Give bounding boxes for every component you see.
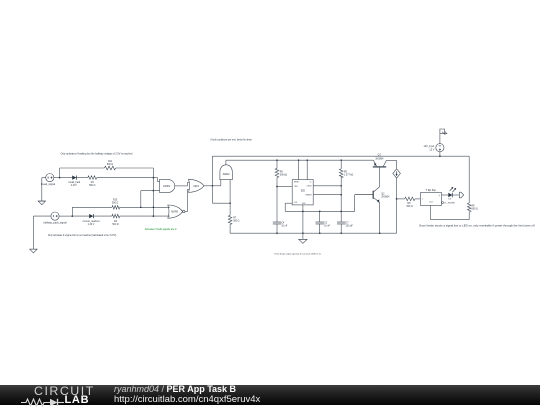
svg-text:CLR: CLR (429, 202, 433, 204)
wire: LED to output port (452, 194, 459, 196)
current source I1 (dependent, diamond) (393, 169, 401, 178)
svg-text:R9: R9 (472, 206, 476, 208)
note: activates if both signals are 0 (green) (145, 228, 177, 231)
wire: up to R11 branch (60, 168, 105, 178)
wire: 12V to rail (439, 152, 441, 156)
ground bus wire (230, 232, 397, 234)
wire: R7 to ground bus (229, 225, 231, 234)
node junction out-gnd cross (302, 211, 304, 213)
wire: OR1 output (204, 185, 212, 187)
svg-text:1.577 kΩ: 1.577 kΩ (344, 175, 354, 177)
wire: NOR1 output to OR1 input B (185, 189, 189, 211)
note: engine limit annotation (48, 234, 117, 237)
voltage source V3 12V_input (424, 144, 444, 152)
resistor R11 (104, 161, 115, 170)
note: timer delay annotation (274, 252, 321, 255)
svg-text:R3: R3 (91, 182, 95, 184)
resistor R6 (275, 168, 287, 177)
node junction at halfway source (71, 215, 73, 217)
resistor R9 (467, 203, 478, 212)
svg-text:OR1: OR1 (193, 184, 199, 188)
svg-text:500 Ω: 500 Ω (407, 206, 413, 208)
wire: Q output to LED (442, 194, 449, 196)
node junction at break source (59, 177, 61, 179)
ground under 555 (299, 233, 307, 243)
capacitor C4 (273, 222, 288, 227)
wire: diamond down to bus (396, 178, 398, 233)
ground under break_signal (38, 201, 45, 205)
ic U2 T flip flop box (420, 189, 441, 205)
wire: OR1 node down and right (212, 186, 230, 203)
svg-text:500 Ω: 500 Ω (107, 164, 113, 166)
wire: into AND1 input A (153, 178, 159, 182)
svg-text:2N3904: 2N3904 (375, 158, 384, 160)
wire: diode to R4 (93, 215, 112, 217)
wire: node to R8 (397, 198, 405, 200)
resistor R10 (112, 200, 120, 210)
wire: 555 THRESH pin (313, 194, 341, 196)
wire: AND2 output up (226, 160, 374, 165)
wire: R10 to NOR1 input A (120, 206, 170, 208)
wire: 555 OUT loop (285, 195, 373, 212)
wire: 555 TRIG pin to R6 node (277, 186, 292, 188)
svg-text:C3: C3 (324, 222, 328, 224)
node junction diamond-R8 (396, 198, 398, 200)
wire: C4 to bus (276, 224, 278, 233)
bus junction b (302, 232, 304, 234)
flip flop Qbar bubble (442, 202, 455, 205)
bus junction c (319, 232, 321, 234)
node junction out-R5 cross (340, 211, 342, 213)
resistor R8 (405, 197, 415, 208)
svg-text:C4: C4 (281, 222, 285, 224)
ground under halfway_pack_signal (30, 249, 37, 253)
voltage source V1 break_signal (41, 174, 56, 187)
note: braking condition annotation (61, 152, 133, 155)
wire: flip flop bottom loop (431, 205, 470, 219)
svg-text:D5: D5 (448, 198, 452, 200)
wire: OR1 node up to top rail (211, 156, 213, 186)
svg-text:500 Ω: 500 Ω (112, 202, 118, 204)
svg-text:THRESH: THRESH (305, 194, 311, 196)
led D5 (448, 187, 456, 201)
node junction THRESH-R5 (340, 194, 342, 196)
capacitor C7 (337, 222, 353, 227)
voltage source V2 halfway_pack_signal (43, 212, 67, 225)
wire: R5 top lead (340, 160, 342, 169)
wire: rail right edge down to R9 (468, 156, 470, 203)
wire: break_signal right lead (54, 177, 60, 179)
diode D2 current_reached (83, 214, 100, 226)
svg-text:R6: R6 (280, 172, 284, 174)
svg-text:10 nF: 10 nF (281, 225, 287, 227)
wire: AND2 right input / R7 vertical (229, 180, 231, 216)
wire: R6 to C4 (276, 178, 278, 223)
and-gate AND1 (160, 179, 175, 192)
bus junction e (379, 232, 381, 234)
wire: R3 to node (97, 177, 154, 179)
svg-text:500 Ω: 500 Ω (112, 224, 118, 226)
wire: 555 GND pin down (302, 205, 304, 233)
node tap 555 pin V+ b (306, 159, 308, 161)
or-gate OR1 (189, 179, 205, 192)
wire: halfway left lead (33, 216, 51, 249)
bus junction d (340, 232, 342, 234)
output port flag (459, 192, 463, 198)
node junction v2 (153, 206, 155, 208)
wire: vertical break net bus (152, 178, 154, 217)
svg-text:R11: R11 (108, 161, 113, 163)
wire: halfway to diode (72, 215, 89, 217)
wire: Q2 emitter to bus (379, 202, 381, 233)
node junction break net (153, 177, 155, 179)
svg-text:break_signal: break_signal (41, 183, 56, 186)
svg-text:AND1: AND1 (163, 184, 171, 188)
node junction DISCH-R5 (340, 185, 342, 187)
svg-text:GND: GND (302, 203, 306, 205)
wire: AND1 input B feed (141, 191, 160, 208)
svg-text:2N3904: 2N3904 (381, 197, 390, 199)
wire: diode to R3 (76, 177, 87, 179)
wire: C3 top lead (319, 211, 321, 222)
svg-text:current_reached: current_reached (83, 220, 100, 223)
wire: R6 top lead (276, 160, 278, 168)
wire: diode lead (60, 177, 73, 179)
power flag (440, 129, 447, 135)
svg-text:R7: R7 (233, 218, 237, 220)
capacitor C3 (316, 222, 331, 227)
wire: 555 top pin 1 (298, 160, 300, 179)
svg-text:R5: R5 (344, 172, 348, 174)
wire: halfway right lead (59, 215, 72, 217)
svg-text:2.47V: 2.47V (71, 185, 77, 187)
node junction OR1 out (212, 185, 214, 187)
svg-text:Once limiter inputs a signal l: Once limiter inputs a signal low to LED … (419, 224, 535, 228)
svg-text:R10: R10 (113, 200, 118, 202)
wire: break_signal left lead (42, 178, 46, 202)
svg-text:Only activates if braking but: Only activates if braking but the halfwa… (61, 152, 133, 155)
transistor Q2 2N3904 (355, 187, 390, 203)
ic U1 555 timer box (292, 180, 313, 205)
svg-text:V+: V+ (310, 181, 312, 183)
svg-text:TRIG: TRIG (294, 186, 298, 188)
nor-gate NOR1 (168, 205, 185, 218)
svg-text:R8: R8 (407, 203, 411, 205)
node junction v1 (153, 190, 155, 192)
svg-text:If both conditions are met, li: If both conditions are met, limits the d… (210, 139, 252, 142)
wire: C3 to bus (319, 224, 321, 233)
svg-text:NOR1: NOR1 (171, 210, 179, 214)
svg-text:500 Ω: 500 Ω (233, 221, 239, 223)
note: LED latch annotation (419, 224, 535, 228)
diode D1 break_hard (69, 176, 81, 187)
svg-text:12 V: 12 V (429, 148, 434, 151)
wire: C7 to bus (340, 224, 342, 233)
svg-text:7L_NORM: 7L_NORM (444, 203, 455, 205)
node junction 555 trig (276, 186, 278, 188)
svg-text:Q2: Q2 (381, 194, 385, 196)
resistor R5 (339, 169, 353, 178)
node tap R6 top (276, 159, 278, 161)
svg-text:Q: Q (439, 195, 441, 197)
node junction AND1-B tap (140, 206, 142, 208)
svg-text:220 pF: 220 pF (346, 225, 354, 227)
svg-text:500 kΩ: 500 kΩ (280, 175, 288, 177)
resistor R3 (88, 176, 97, 187)
wire: up to R10 branch (72, 207, 112, 216)
note: both conditions annotation (210, 139, 252, 142)
resistor R4 (112, 214, 120, 226)
wire: Q2 collector up to Q1 base (379, 167, 381, 187)
transistor Q1 2N3904 (373, 155, 387, 167)
svg-text:RESET: RESET (294, 181, 299, 183)
svg-text:Activates if both signals are: Activates if both signals are 0 (145, 228, 177, 231)
node junction at R7 line (229, 202, 231, 204)
wire: 12V up to flag (439, 135, 441, 144)
wire: 555 DISCH pin (313, 185, 341, 187)
svg-text:Only activates if engine limit: Only activates if engine limit is not re… (48, 234, 117, 237)
bus junction a (276, 232, 278, 234)
wire: R11 to corner (116, 168, 154, 178)
wire: 555 top pin 2 (306, 160, 308, 179)
svg-text:DISCH: DISCH (307, 186, 312, 188)
svg-text:500 Ω: 500 Ω (472, 209, 478, 211)
node junction v3 (153, 215, 155, 217)
wire: R8 to flip flop (415, 198, 421, 200)
and-gate AND2 (rotated, dome up) (220, 165, 232, 180)
svg-text:break_hard: break_hard (69, 181, 81, 184)
svg-text:R4: R4 (114, 221, 118, 223)
wire: R5 down to C7 (340, 178, 342, 222)
svg-text:555: 555 (301, 189, 306, 192)
svg-text:OUT: OUT (294, 202, 297, 204)
svg-text:Timer delays output signal by: Timer delays output signal by 3.5 second… (274, 252, 321, 255)
svg-text:C7: C7 (346, 222, 350, 224)
svg-text:halfway_pack_signal: halfway_pack_signal (43, 222, 67, 225)
svg-text:T: T (422, 199, 424, 201)
resistor R7 (228, 215, 239, 224)
svg-text:T flip flop: T flip flop (426, 189, 437, 192)
wire: AND1 output to OR1 input A (175, 182, 190, 186)
wire: R4 to NOR1 input B (120, 215, 170, 217)
svg-text:1.23 V: 1.23 V (88, 224, 95, 226)
node tap 555 pin V+ a (298, 159, 300, 161)
node tap R5 top (340, 159, 342, 161)
wire: AND2 left input feed (212, 180, 220, 186)
CircuitLab logo (21, 386, 116, 405)
node junction 12V-rail (439, 155, 441, 157)
top rail 12V (212, 155, 469, 157)
svg-text:10 nF: 10 nF (324, 225, 330, 227)
svg-text:500 Ω: 500 Ω (89, 185, 95, 187)
node junction out-C3 (319, 211, 321, 213)
wire: Q1 collector to diamond (386, 160, 396, 168)
svg-text:AND2: AND2 (223, 172, 230, 176)
